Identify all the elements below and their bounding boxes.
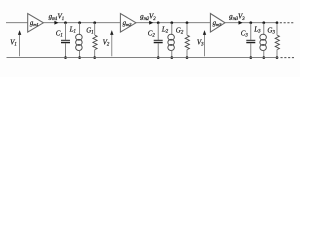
transconductance amplifier U3 (gm3) (210, 14, 225, 33)
node dot at L3 branch (top) (262, 21, 265, 24)
inductor L3 (263, 23, 265, 35)
current direction arrowhead gm1V1 (54, 21, 58, 25)
wire from amplifier U2 output (136, 22, 210, 24)
voltage arrow V3 (204, 35, 206, 57)
resistor (conductance) G3 (276, 23, 278, 36)
capacitor C3 (250, 23, 252, 40)
node dot at G1 branch (top) (93, 21, 96, 24)
inductor L1 (79, 23, 81, 35)
voltage arrow V1 (19, 35, 21, 57)
capacitor C1 (65, 23, 67, 40)
resistor (conductance) G2 (186, 23, 188, 36)
resistor (conductance) G1 (94, 23, 96, 36)
node dot at L1 branch (top) (78, 21, 81, 24)
wire from amplifier U3 output (225, 22, 277, 24)
ground dot at G3 branch (rail) (276, 56, 279, 59)
ground dot at G1 branch (rail) (93, 56, 96, 59)
node dot at C2 branch (top) (157, 21, 160, 24)
ground dot at G2 branch (rail) (186, 56, 189, 59)
ground dot at L2 branch (rail) (171, 56, 174, 59)
ground dot at C1 branch (rail) (64, 56, 67, 59)
top wire dashed continuation (to further stages) (280, 22, 295, 24)
node dot at G3 branch (top) (276, 21, 279, 24)
ground dot at L3 branch (rail) (263, 56, 266, 59)
inductor L2 (171, 23, 173, 35)
wire from amplifier U1 output (43, 22, 120, 24)
transconductance amplifier U2 (gm2) (120, 14, 136, 33)
ground dot at C3 branch (rail) (250, 56, 253, 59)
ground dot at C2 branch (rail) (157, 56, 160, 59)
node dot at C1 branch (top) (64, 21, 67, 24)
current direction arrowhead gm2V2 (149, 21, 153, 25)
top signal wire segment (input) (6, 22, 28, 24)
node dot at L2 branch (top) (170, 21, 173, 24)
voltage arrow V2 (111, 35, 113, 57)
node dot at C3 branch (top) (249, 21, 252, 24)
current direction arrowhead gm3V3 (239, 21, 243, 25)
ground rail (7, 57, 279, 59)
capacitor C2 (157, 23, 159, 40)
ground rail dashed continuation (281, 57, 296, 59)
transconductance amplifier U1 (gm1) (28, 14, 44, 33)
node dot at G2 branch (top) (186, 21, 189, 24)
ground dot at L1 branch (rail) (78, 56, 81, 59)
